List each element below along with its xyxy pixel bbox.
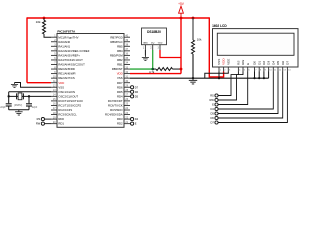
ground main [189, 78, 197, 84]
svg-text:RE1/AN6/WR: RE1/AN6/WR [58, 72, 75, 76]
svg-text:RD3: RD3 [117, 117, 123, 121]
svg-text:RB6/PGC: RB6/PGC [110, 40, 122, 44]
svg-text:D1: D1 [257, 61, 261, 65]
svg-text:RA4/T0CKI/C1OUT: RA4/T0CKI/C1OUT [58, 58, 83, 62]
svg-text:D5: D5 [210, 112, 214, 116]
wire to D5 terminal [129, 95, 131, 97]
svg-text:D7: D7 [135, 85, 139, 89]
wire to R2 [153, 68, 156, 70]
wire R3 top [192, 18, 194, 40]
svg-text:22pF: 22pF [0, 106, 6, 109]
wire +5V rail top [27, 17, 209, 19]
node D7 (PIC side) [131, 86, 134, 89]
wire OSC1 [9, 91, 51, 93]
junction R2/+5V [180, 68, 183, 71]
svg-text:D5: D5 [135, 94, 139, 98]
node D6 (PIC side) [131, 90, 134, 93]
wire pullup top [180, 58, 182, 74]
svg-text:RB1: RB1 [117, 63, 123, 67]
svg-text:MCLR/Vpp/THV: MCLR/Vpp/THV [58, 35, 78, 39]
junction crystal/C2 [28, 95, 30, 97]
wire OSC1 down [8, 92, 10, 103]
wire DS18B20 VDD [160, 50, 181, 58]
svg-text:10k: 10k [36, 20, 41, 24]
node RW (left) [41, 122, 44, 125]
wire DQ vertical (green) [152, 50, 154, 69]
node RS (left) [41, 118, 44, 121]
svg-text:VEE: VEE [226, 59, 230, 65]
svg-text:RE0/AN5/RD: RE0/AN5/RD [58, 67, 74, 71]
sensor U2 DS18B20 [142, 28, 167, 50]
junction gnd bus / gnd symbol [192, 77, 194, 79]
wire LCD VSS down [218, 72, 220, 79]
svg-text:RW: RW [210, 98, 215, 102]
wire LCD RW [218, 72, 243, 101]
svg-text:RC5/SDO: RC5/SDO [110, 108, 123, 112]
svg-text:RB7/PGD: RB7/PGD [110, 35, 122, 39]
junction [263, 77, 265, 79]
svg-text:RW: RW [241, 60, 245, 65]
svg-text:D2: D2 [262, 61, 266, 65]
capacitor C2 22pF [26, 104, 38, 110]
svg-text:RA3/AN3/VREF+: RA3/AN3/VREF+ [58, 53, 80, 57]
node E (PIC side) [131, 122, 134, 125]
svg-text:1602 LCD: 1602 LCD [212, 24, 227, 28]
wire DQ to RB0 (green) [130, 68, 153, 70]
wire LCD D2 to gnd [263, 72, 265, 79]
svg-text:RB3/PGM: RB3/PGM [110, 53, 123, 57]
svg-text:22pF: 22pF [32, 106, 38, 109]
svg-text:VDD: VDD [222, 58, 226, 65]
wire LCD D3 to gnd [268, 72, 270, 79]
svg-text:VSS: VSS [117, 76, 123, 80]
svg-text:RA0/AN0: RA0/AN0 [58, 40, 70, 44]
wire +5V to PIC VDD pin32 [130, 73, 181, 75]
node RS (LCD side) [215, 94, 218, 97]
svg-text:E: E [212, 103, 214, 107]
svg-text:RB2: RB2 [117, 58, 123, 62]
wire LCD D4 [218, 72, 273, 110]
svg-text:DQ: DQ [151, 43, 155, 45]
svg-text:D6: D6 [135, 90, 139, 94]
junction DQ [151, 68, 154, 71]
wire LCD E [218, 72, 248, 105]
wire R1 top [43, 18, 45, 20]
svg-text:RS: RS [210, 94, 214, 98]
wire LCD D0 to gnd [254, 72, 256, 79]
svg-text:DS18B20: DS18B20 [147, 30, 161, 34]
wire R2 to +5V [173, 68, 182, 70]
wire LCD D6 [218, 72, 283, 119]
svg-text:D7: D7 [286, 61, 290, 65]
wire LCD D5 [218, 72, 278, 114]
svg-text:RC2/CCP1: RC2/CCP1 [58, 108, 72, 112]
svg-text:RC6/TX/CK: RC6/TX/CK [108, 104, 123, 108]
power +5V symbol [179, 6, 184, 18]
wire RD0 to RS terminal [45, 118, 51, 120]
svg-text:VSS: VSS [58, 85, 64, 89]
node E (LCD side) [215, 103, 218, 106]
svg-text:VSS: VSS [217, 59, 221, 65]
node D4 (PIC side) [131, 118, 134, 121]
svg-text:GND: GND [143, 43, 148, 45]
svg-text:10k: 10k [197, 38, 202, 42]
junction [253, 77, 255, 79]
svg-text:OSC2/CLKOUT: OSC2/CLKOUT [58, 94, 78, 98]
svg-text:4.7k: 4.7k [149, 70, 155, 74]
wire OSC2 [29, 95, 51, 97]
svg-text:RS: RS [237, 61, 241, 65]
svg-text:RE2/AN7/CS: RE2/AN7/CS [58, 76, 74, 80]
svg-text:+5V: +5V [178, 2, 185, 6]
wire ground bus [130, 77, 269, 79]
svg-text:RA5/AN4/SS/C2OUT: RA5/AN4/SS/C2OUT [58, 63, 85, 67]
IC U1 PIC16F877A [51, 29, 130, 127]
svg-text:D3: D3 [267, 61, 271, 65]
junction [258, 77, 260, 79]
wire to D4 terminal [129, 118, 131, 120]
node D5 (PIC side) [131, 95, 134, 98]
junction crystal/OSC1 branch [8, 95, 10, 97]
resistor R1 10k MCLR pullup [43, 20, 46, 34]
svg-text:RB0/INT: RB0/INT [112, 67, 123, 71]
resistor R2 4.7k pullup [156, 68, 173, 71]
svg-text:D4: D4 [135, 117, 139, 121]
svg-text:D6: D6 [210, 116, 214, 120]
svg-text:D5: D5 [276, 61, 280, 65]
wire cap gnd bus [9, 109, 29, 111]
wire +5V to PIC VDD pin11 [27, 82, 51, 84]
junction rail/R3 [192, 17, 195, 20]
svg-text:RC1/T1OSI/CCP2: RC1/T1OSI/CCP2 [58, 104, 81, 108]
svg-text:RD6: RD6 [117, 85, 123, 89]
svg-text:D4: D4 [271, 61, 275, 65]
node D4 (LCD side) [215, 107, 218, 110]
resistor R3 10k [192, 40, 195, 54]
node D6 (LCD side) [215, 116, 218, 119]
svg-text:RC7/RX/DT: RC7/RX/DT [108, 99, 123, 103]
svg-text:RC3/SCK/SCL: RC3/SCK/SCL [58, 113, 77, 117]
svg-text:RB4: RB4 [117, 49, 123, 53]
wire to D7 terminal [129, 86, 131, 88]
svg-text:RC0/T1OSO/T1CKI: RC0/T1OSO/T1CKI [58, 99, 83, 103]
svg-text:RW: RW [36, 122, 41, 126]
svg-text:RD7: RD7 [117, 81, 123, 85]
junction gnd/LCD VSS [218, 77, 220, 79]
svg-text:D0: D0 [253, 61, 257, 65]
wire to E terminal [129, 123, 131, 125]
wire RD1 to RW terminal [45, 123, 51, 125]
svg-text:RA1/AN1: RA1/AN1 [58, 44, 70, 48]
svg-text:OSC1/CLKIN: OSC1/CLKIN [58, 90, 75, 94]
wire LCD D1 to gnd [258, 72, 260, 79]
svg-text:E: E [246, 63, 250, 65]
wire LCD VEE to gnd [205, 72, 229, 79]
svg-text:RA2/AN2/VREF-/CVREF: RA2/AN2/VREF-/CVREF [58, 49, 89, 53]
svg-text:PIC16F877A: PIC16F877A [57, 29, 76, 33]
wire to D6 terminal [129, 91, 131, 93]
node D5 (LCD side) [215, 112, 218, 115]
svg-text:VDD: VDD [58, 81, 64, 85]
svg-text:RC4/SDI/SDA: RC4/SDI/SDA [105, 113, 123, 117]
svg-text:RS: RS [37, 117, 41, 121]
node RW (LCD side) [215, 98, 218, 101]
ground DS18B20 [142, 56, 149, 61]
svg-text:RD0: RD0 [58, 117, 64, 121]
wire R1 to MCLR [44, 34, 51, 37]
wire VSS pin12 to gnd [15, 83, 52, 88]
svg-text:(4MHz): (4MHz) [14, 104, 22, 107]
svg-text:RD1: RD1 [58, 122, 64, 126]
svg-text:RD4: RD4 [117, 94, 123, 98]
junction rail/R1 [43, 17, 46, 20]
svg-text:D6: D6 [281, 61, 285, 65]
wire DS GND [144, 50, 146, 56]
crystal X1 [14, 93, 23, 107]
svg-text:VDD: VDD [117, 72, 123, 76]
wire LCD RS [218, 72, 238, 96]
svg-text:RD5: RD5 [117, 90, 123, 94]
wire LCD D7 [218, 72, 287, 123]
ground left [11, 83, 18, 88]
ground crystal [15, 110, 23, 115]
svg-text:RD2: RD2 [117, 122, 123, 126]
svg-text:D4: D4 [210, 107, 214, 111]
wire +5V drop x181 [180, 18, 182, 58]
display LCD1 1602 LCD [212, 24, 298, 72]
junction rail/+5V drop [180, 17, 183, 20]
svg-text:D7: D7 [210, 121, 214, 125]
svg-text:RB5: RB5 [117, 44, 123, 48]
svg-text:E: E [135, 122, 137, 126]
wire +5V to LCD VDD [209, 17, 223, 77]
svg-text:VDD: VDD [158, 43, 163, 45]
node D7 (LCD side) [215, 121, 218, 124]
wire crystal left [9, 95, 29, 97]
wire +5V left drop [26, 17, 28, 82]
wire C2 top [28, 96, 30, 103]
wire R3 bottom [192, 54, 194, 78]
capacitor C1 22pF [0, 104, 12, 110]
